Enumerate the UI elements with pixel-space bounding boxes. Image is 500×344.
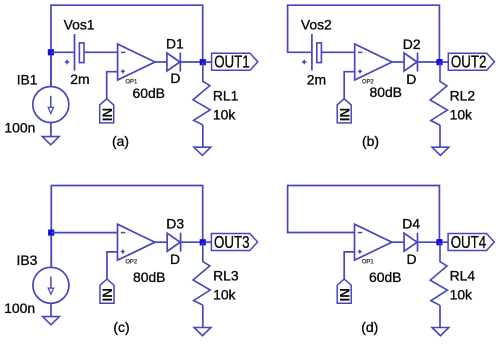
- svg-text:RL3: RL3: [213, 268, 239, 284]
- diode D1: [167, 53, 180, 72]
- svg-text:10k: 10k: [450, 287, 472, 303]
- ground d RL4 ground: [432, 328, 449, 336]
- wire d feedback left vertical: [287, 185, 289, 233]
- op-amp U3 OP2 (c): [118, 224, 155, 265]
- svg-text:OUT3: OUT3: [214, 233, 249, 252]
- wire a RL1 to ground: [202, 125, 204, 148]
- svg-text:OUT4: OUT4: [451, 233, 487, 252]
- svg-text:10k: 10k: [213, 106, 235, 122]
- node d1 (output): [436, 239, 442, 245]
- ground a IB1 ground: [42, 137, 59, 145]
- svg-text:RL4: RL4: [450, 268, 476, 284]
- ground c IB3 ground: [43, 317, 60, 325]
- svg-text:100n: 100n: [4, 300, 35, 316]
- svg-text:10k: 10k: [450, 106, 472, 122]
- node c1 (inverting input net): [48, 230, 54, 236]
- svg-text:(a): (a): [112, 133, 129, 149]
- wire a feedback top: [51, 4, 203, 6]
- op-amp U4 OP1 (d): [355, 224, 392, 265]
- svg-text:100n: 100n: [4, 119, 35, 135]
- wire c D3 to output node: [181, 241, 200, 243]
- ground a RL1 ground: [194, 147, 211, 155]
- svg-text:D: D: [406, 71, 416, 87]
- svg-text:60dB: 60dB: [369, 269, 401, 285]
- wire c feedback top: [51, 185, 202, 187]
- wire c node to OUT3: [205, 241, 211, 243]
- wire d feedback top: [288, 185, 440, 187]
- wire c op-amp output to D3: [155, 241, 167, 243]
- Vos2 plus terminal mark: [302, 60, 307, 65]
- wire b feedback top: [288, 4, 440, 6]
- resistor RL4 body: [430, 242, 447, 305]
- svg-text:60dB: 60dB: [133, 85, 165, 101]
- svg-text:80dB: 80dB: [370, 84, 402, 100]
- resistor RL1 body: [193, 62, 210, 125]
- svg-text:D: D: [407, 251, 417, 267]
- wire b RL2 to ground: [439, 125, 441, 147]
- wire d RL4 to ground: [439, 305, 441, 328]
- wire b op-amp output to D2: [392, 61, 404, 63]
- svg-text:80dB: 80dB: [133, 269, 165, 285]
- svg-text:(c): (c): [113, 319, 129, 335]
- svg-text:(b): (b): [362, 133, 379, 149]
- wire c feedback right vertical: [202, 185, 204, 243]
- wire b node to OUT2: [442, 61, 448, 63]
- wire d IN port to non-inverting input: [344, 252, 354, 279]
- svg-text:2m: 2m: [307, 72, 326, 88]
- wire a IN port to non-inverting input: [107, 72, 118, 99]
- svg-text:IN: IN: [337, 288, 352, 301]
- svg-text:D: D: [170, 251, 180, 267]
- svg-text:Vos1: Vos1: [64, 17, 95, 33]
- diode D2: [404, 53, 417, 72]
- wire d D4 to output node: [418, 241, 438, 243]
- current source IB1: [33, 87, 69, 123]
- svg-text:10k: 10k: [213, 287, 235, 303]
- diode D3: [167, 233, 180, 252]
- wire a node to Vos1: [51, 51, 75, 53]
- wire c RL3 to ground: [202, 305, 204, 328]
- output port OUT3: [211, 233, 257, 252]
- voltage source Vos1: [75, 34, 85, 71]
- wire a Vos1 to op-amp inverting input: [84, 51, 117, 53]
- svg-text:D4: D4: [402, 216, 420, 232]
- output port OUT4: [448, 233, 494, 252]
- wire a IB1 to ground: [50, 123, 52, 138]
- op-amp U2 OP2: [355, 44, 392, 85]
- wire a D1 to output node: [180, 61, 200, 63]
- svg-text:RL2: RL2: [450, 87, 476, 103]
- node c2 (output): [200, 239, 206, 245]
- wire a feedback left vertical: [50, 4, 52, 87]
- wire b corner to Vos2: [287, 51, 312, 53]
- wire d feedback right vertical: [438, 185, 440, 243]
- wire a feedback right vertical: [202, 4, 204, 62]
- svg-text:D3: D3: [166, 216, 184, 232]
- svg-text:OUT2: OUT2: [451, 53, 486, 72]
- diode D4: [404, 233, 417, 252]
- current source IB3: [33, 267, 69, 303]
- voltage source Vos2: [312, 34, 322, 71]
- svg-text:IB3: IB3: [17, 252, 38, 268]
- node a1 (inverting input net): [48, 49, 54, 55]
- resistor RL2 body: [430, 62, 447, 125]
- output port OUT2: [448, 53, 494, 72]
- svg-text:OUT1: OUT1: [214, 53, 249, 72]
- wire c node to op-amp inverting input: [51, 232, 117, 234]
- wire c IB3 branch: [50, 235, 52, 267]
- wire d feedback to op-amp inverting input: [287, 232, 355, 234]
- resistor RL3 body: [193, 242, 210, 305]
- wire b feedback left vertical: [287, 4, 289, 52]
- svg-text:D: D: [170, 70, 180, 86]
- ground b RL2 ground: [432, 147, 449, 155]
- svg-text:Vos2: Vos2: [301, 17, 332, 33]
- output port OUT1: [212, 53, 258, 72]
- svg-text:IN: IN: [100, 288, 115, 301]
- svg-text:OP2: OP2: [125, 259, 138, 266]
- wire a IB1 branch: [50, 55, 52, 88]
- wire b IN port to non-inverting input: [344, 72, 355, 99]
- svg-text:2m: 2m: [70, 71, 89, 87]
- svg-text:D1: D1: [166, 36, 184, 52]
- svg-text:RL1: RL1: [213, 87, 239, 103]
- ground c RL3 ground: [194, 328, 211, 336]
- svg-text:(d): (d): [361, 319, 378, 335]
- svg-text:OP1: OP1: [362, 259, 375, 266]
- op-amp U1 OP1: [118, 44, 155, 85]
- wire d op-amp output to D4: [392, 241, 404, 243]
- wire b feedback right vertical: [438, 4, 440, 62]
- svg-text:IN: IN: [100, 108, 115, 121]
- wire b D2 to output node: [418, 61, 438, 63]
- wire c feedback left vertical: [50, 185, 52, 268]
- input port IN (b): [337, 99, 352, 123]
- wire d node to OUT4: [442, 241, 448, 243]
- wire c IN port to non-inverting input: [107, 252, 118, 279]
- input port IN (d): [337, 279, 352, 303]
- wire b Vos2 to op-amp inverting input: [322, 51, 355, 53]
- input port IN (a): [100, 99, 115, 123]
- node a2 (output): [200, 59, 206, 65]
- svg-text:IN: IN: [337, 108, 352, 121]
- svg-text:D2: D2: [403, 36, 421, 52]
- svg-text:IB1: IB1: [17, 71, 38, 87]
- node b1 (output): [436, 59, 442, 65]
- input port IN (c): [100, 279, 115, 303]
- Vos1 plus terminal mark: [65, 60, 70, 65]
- wire a op-amp output to D1: [155, 61, 167, 63]
- wire c IB3 to ground: [50, 303, 52, 317]
- wire a node to OUT1: [205, 61, 212, 63]
